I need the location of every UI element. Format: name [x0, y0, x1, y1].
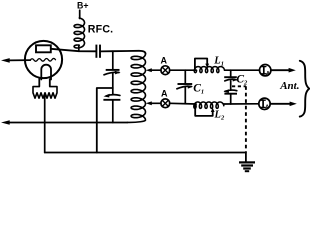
svg-text:A: A	[161, 89, 168, 99]
svg-text:RFC.: RFC.	[88, 24, 114, 36]
svg-text:A: A	[266, 71, 270, 77]
svg-text:L: L	[214, 109, 221, 120]
svg-text:L: L	[213, 55, 220, 66]
svg-text:B+: B+	[77, 1, 89, 11]
svg-text:1: 1	[201, 89, 204, 96]
svg-text:1: 1	[221, 60, 224, 67]
svg-text:A: A	[265, 105, 269, 111]
svg-text:Ant.: Ant.	[279, 80, 299, 92]
svg-text:A: A	[161, 55, 168, 65]
svg-text:2: 2	[220, 114, 225, 121]
